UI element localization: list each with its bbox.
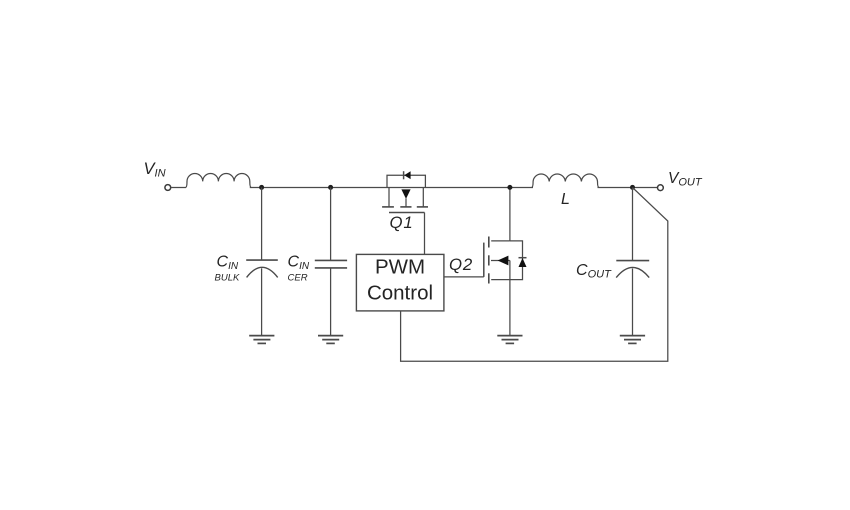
node at CIN CER tap	[328, 185, 333, 190]
svg-text:Q1: Q1	[390, 213, 414, 232]
terminal VOUT	[658, 185, 664, 191]
capacitor CIN CER	[315, 260, 347, 268]
wire Q1 gate to PWM control	[424, 213, 426, 255]
node at CIN BULK tap	[259, 185, 264, 190]
node switch node	[507, 185, 512, 190]
svg-text:CIN: CIN	[217, 254, 239, 273]
op-amp / block U1 PWM Control	[356, 254, 444, 311]
wire CIN CER bottom lead	[330, 268, 332, 335]
transistor Q1 (high-side MOSFET with body diode)	[382, 171, 428, 212]
terminal VIN	[165, 185, 171, 191]
inductor L (output)	[532, 174, 600, 188]
ground (CIN CER)	[318, 336, 343, 344]
svg-text:PWM: PWM	[375, 256, 425, 279]
ground (COUT)	[620, 336, 645, 344]
wire Q2 source to ground	[509, 280, 511, 336]
svg-text:VIN: VIN	[144, 160, 166, 180]
svg-text:L: L	[561, 191, 570, 208]
svg-text:CER: CER	[288, 273, 308, 284]
wire L to VOUT terminal	[598, 187, 658, 189]
wire PWM control to Q2 gate	[444, 276, 484, 278]
wire feedback VOUT to PWM control	[401, 188, 668, 361]
svg-text:Q2: Q2	[449, 255, 473, 274]
capacitor COUT	[616, 261, 649, 336]
capacitor CIN BULK	[246, 260, 278, 335]
node VOUT junction	[630, 185, 635, 190]
wire input rail	[250, 187, 533, 189]
inductor LIN (input filter)	[186, 174, 252, 188]
svg-text:Control: Control	[367, 282, 433, 305]
wire CIN BULK top lead	[261, 188, 263, 260]
ground (CIN BULK)	[249, 336, 274, 344]
wire COUT top lead	[632, 188, 634, 261]
wire VIN terminal to input inductor	[171, 187, 186, 189]
wire CIN CER top lead	[330, 188, 332, 261]
ground (Q2 source)	[497, 336, 522, 344]
svg-text:CIN: CIN	[288, 254, 310, 273]
svg-text:BULK: BULK	[215, 273, 240, 284]
svg-text:VOUT: VOUT	[668, 170, 703, 189]
svg-text:COUT: COUT	[576, 262, 612, 281]
transistor Q2 (low-side MOSFET with body diode)	[484, 188, 527, 284]
